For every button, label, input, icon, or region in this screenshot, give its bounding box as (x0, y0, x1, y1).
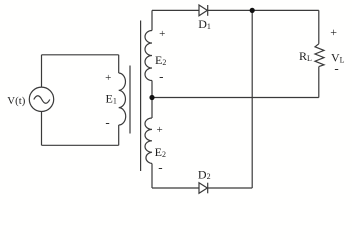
wire secondary top to center tap (151, 81, 153, 98)
wire secondary top lead (151, 10, 153, 30)
wire secondary center tap to bottom winding (151, 98, 153, 119)
source sine symbol (34, 96, 50, 104)
transformer core right bar (140, 21, 142, 172)
node top junction (250, 8, 255, 13)
svg-text:V(t): V(t) (7, 95, 25, 107)
diode D1 triangle (199, 5, 207, 16)
svg-text:E1: E1 (106, 92, 117, 106)
node center tap (149, 95, 154, 100)
svg-text:+: + (330, 25, 337, 39)
diode D2 triangle (199, 183, 207, 194)
source V(t) circle (29, 87, 53, 111)
transformer core left bar (129, 66, 131, 134)
wire top rail right of D1 (208, 9, 319, 11)
wire load branch upper (318, 10, 320, 43)
svg-text:E2: E2 (155, 145, 166, 159)
svg-text:E2: E2 (155, 53, 166, 67)
winding E2 bottom secondary coil (145, 118, 152, 163)
wire top rail left of D1 (152, 9, 199, 11)
diode D2 cathode bar (207, 183, 209, 194)
wire load branch lower (318, 67, 320, 98)
wire primary loop bottom (42, 144, 119, 146)
winding E2 top secondary coil (145, 31, 152, 81)
wire primary loop top (42, 54, 119, 56)
diode D1 cathode bar (207, 5, 209, 16)
svg-text:-: - (159, 69, 163, 84)
svg-text:+: + (159, 28, 165, 40)
wire center tap rail (152, 97, 319, 99)
wire primary coil lead bottom (118, 125, 120, 145)
svg-text:+: + (105, 72, 111, 84)
wire bottom rail right of D2 (208, 187, 253, 189)
svg-text:-: - (158, 160, 162, 175)
wire right branch down from top node (251, 10, 253, 188)
wire bottom rail left of D2 (152, 187, 199, 189)
wire primary loop left vertical (bottom segment) (41, 112, 43, 146)
resistor RL zigzag (315, 44, 324, 67)
winding E1 primary coil (119, 73, 126, 125)
svg-text:-: - (105, 115, 109, 130)
svg-text:RL: RL (299, 49, 312, 63)
wire primary loop left vertical (top segment) (41, 55, 43, 87)
svg-text:-: - (334, 61, 338, 76)
svg-text:+: + (156, 124, 162, 136)
wire primary coil lead top (118, 55, 120, 73)
svg-text:D2: D2 (198, 167, 211, 181)
svg-text:D1: D1 (198, 17, 211, 31)
wire secondary bottom lead (151, 164, 153, 189)
